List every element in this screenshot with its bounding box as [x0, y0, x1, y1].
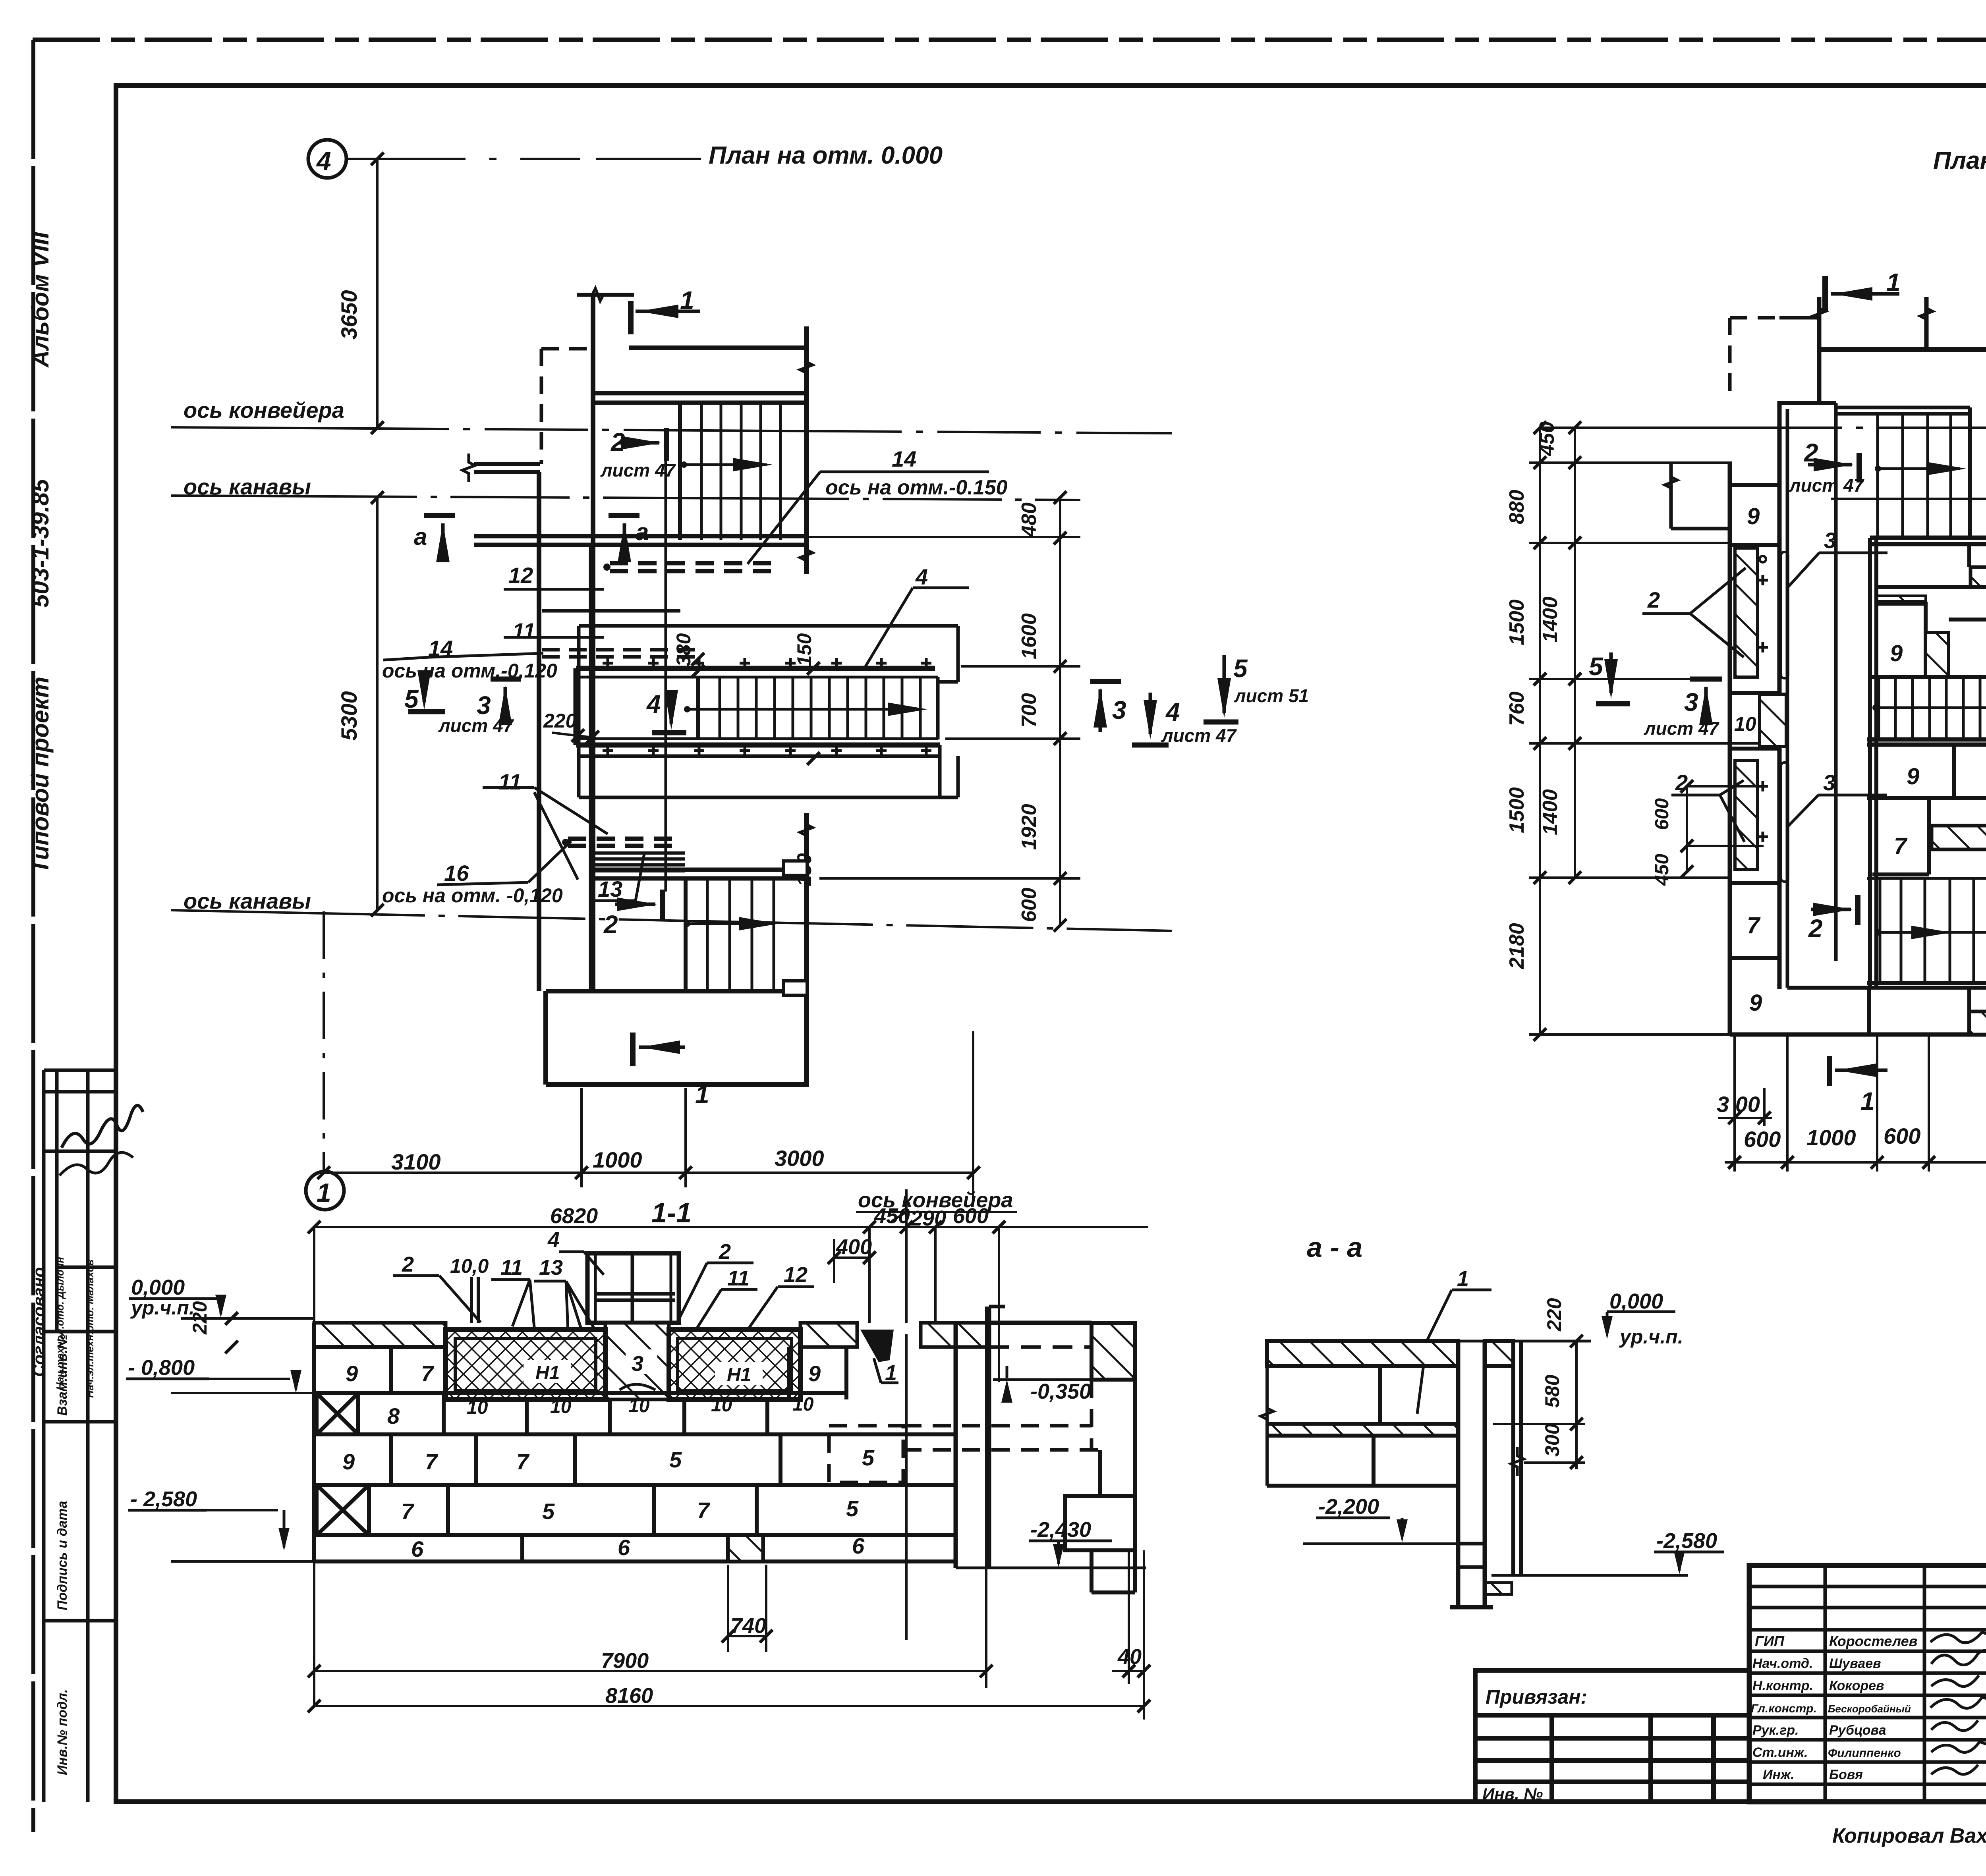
ось канавы upper line	[171, 496, 1080, 500]
small wall mark top-left	[1669, 463, 1673, 529]
section mark 2 bottom	[1811, 908, 1851, 911]
svg-text:ось конвейера: ось конвейера	[184, 398, 344, 423]
room divider lines	[542, 609, 680, 613]
svg-text:10: 10	[1734, 713, 1756, 735]
svg-text:760: 760	[1505, 691, 1528, 726]
bottom dim chain	[1725, 1161, 1986, 1164]
svg-text:3100: 3100	[391, 1149, 441, 1174]
-0,350 level right	[993, 1378, 1120, 1381]
lower stair	[1880, 878, 1974, 983]
dim 5300 vertical	[376, 498, 379, 910]
svg-text:лист 47: лист 47	[438, 715, 514, 736]
wall block rows	[314, 1323, 956, 1561]
svg-text:Коростелев: Коростелев	[1829, 1633, 1917, 1649]
svg-text:7: 7	[1747, 913, 1761, 938]
svg-text:Нач.отд.: Нач.отд.	[1752, 1656, 1813, 1671]
corridor walls	[1786, 409, 1789, 988]
inner small dim 600/450	[1686, 786, 1688, 872]
svg-text:2: 2	[719, 1240, 731, 1264]
svg-text:9: 9	[342, 1449, 355, 1474]
svg-text:1: 1	[885, 1361, 897, 1385]
tunnel bottom heavy line with anchors	[576, 743, 940, 748]
svg-text:14: 14	[892, 446, 916, 471]
signatures column squiggles	[1930, 1632, 1986, 1774]
dashed hidden top-left rectangle	[541, 347, 595, 351]
svg-text:а - а: а - а	[1307, 1232, 1362, 1263]
svg-text:5: 5	[846, 1496, 859, 1521]
13 stack lines	[590, 851, 685, 855]
svg-text:а: а	[414, 523, 427, 550]
svg-text:5: 5	[1589, 652, 1603, 681]
ось канавы lower line	[171, 910, 1172, 931]
svg-text:6: 6	[852, 1533, 865, 1558]
svg-text:4: 4	[547, 1228, 560, 1252]
svg-text:ГИП: ГИП	[1755, 1633, 1785, 1649]
svg-text:лист 51: лист 51	[1234, 685, 1309, 706]
left stamp table	[44, 1070, 116, 1802]
svg-text:700: 700	[1018, 693, 1041, 728]
svg-text:580: 580	[1541, 1374, 1563, 1408]
svg-text:5: 5	[862, 1445, 875, 1470]
left lower wall verticals	[537, 472, 541, 991]
row5 joints	[520, 1535, 524, 1561]
row1 joints	[389, 1347, 393, 1393]
top dim line 6820/450/290/600	[314, 1226, 1148, 1228]
trench box left (crosshatched)	[446, 1330, 605, 1399]
svg-text:7: 7	[401, 1499, 415, 1524]
section marks between plans: 3 up	[1090, 679, 1121, 684]
svg-text:3: 3	[632, 1352, 643, 1376]
svg-text:1000: 1000	[1806, 1125, 1856, 1150]
section marks between plans: 4 down	[1149, 693, 1152, 734]
right walls	[954, 1323, 958, 1568]
left outer dim chain	[1539, 428, 1541, 1035]
svg-text:ось на отм.-0,120: ось на отм.-0,120	[382, 660, 557, 682]
channel bars (3) thin outlines	[1781, 552, 1788, 678]
grid axis 1 vertical + bubble	[323, 911, 325, 1170]
row4 joints	[367, 1485, 371, 1535]
svg-text:Привязан:: Привязан:	[1486, 1686, 1587, 1708]
top wall end with break	[577, 293, 634, 297]
lower stair direction arrow	[684, 921, 690, 927]
svg-text:Типовой проект: Типовой проект	[27, 677, 54, 874]
svg-text:880: 880	[1505, 490, 1528, 524]
svg-text:лист 47: лист 47	[600, 460, 676, 481]
extension verticals top	[868, 1227, 871, 1324]
svg-text:Рук.гр.: Рук.гр.	[1752, 1723, 1799, 1738]
svg-text:1: 1	[1457, 1267, 1469, 1291]
svg-text:600: 600	[1884, 1123, 1920, 1148]
svg-text:-2,200: -2,200	[1318, 1495, 1379, 1519]
svg-text:7: 7	[425, 1449, 439, 1474]
svg-text:220: 220	[543, 710, 577, 732]
svg-text:7: 7	[516, 1449, 530, 1474]
svg-text:4: 4	[915, 564, 928, 589]
svg-text:2: 2	[603, 910, 618, 939]
svg-text:1920: 1920	[1018, 804, 1041, 850]
svg-text:9: 9	[808, 1361, 821, 1386]
svg-text:380: 380	[672, 633, 695, 666]
upper stair flight treads	[680, 403, 780, 540]
svg-text:-2,430: -2,430	[1030, 1518, 1091, 1542]
top stair	[1836, 406, 1970, 409]
svg-text:Взам.инв.№: Взам.инв.№	[55, 1334, 70, 1416]
band1 canal slot (left, enters plan)	[474, 462, 540, 466]
svg-text:600: 600	[1744, 1127, 1781, 1152]
svg-text:3: 3	[1823, 770, 1835, 795]
svg-text:Н.контр.: Н.контр.	[1752, 1678, 1813, 1693]
lower slot double line	[593, 868, 806, 872]
svg-text:1400: 1400	[1539, 596, 1562, 643]
small hatch at bottom of unit	[1486, 1583, 1512, 1594]
section 1 top mark	[628, 301, 634, 334]
grid axis 4 line	[346, 158, 701, 160]
stair direction arrow (upper flight)	[681, 461, 687, 468]
door tabs on right wall	[783, 861, 807, 875]
svg-text:450: 450	[1536, 421, 1559, 456]
svg-text:-2,580: -2,580	[1656, 1529, 1717, 1553]
top slab hatch	[1267, 1341, 1458, 1366]
svg-text:- 0,800: - 0,800	[128, 1356, 195, 1380]
svg-text:0,000: 0,000	[1609, 1289, 1663, 1313]
row3 joints	[389, 1434, 393, 1485]
left column wall verticals	[1728, 463, 1732, 1035]
svg-text:ур.ч.п.: ур.ч.п.	[1619, 1326, 1683, 1348]
9 7 7 row	[1867, 796, 1986, 800]
svg-text:1: 1	[695, 1080, 709, 1109]
row outlines	[314, 1345, 446, 1349]
svg-text:- 2,580: - 2,580	[130, 1487, 197, 1511]
svg-text:Рубцова: Рубцова	[1829, 1723, 1886, 1738]
svg-text:9: 9	[1749, 990, 1762, 1016]
signature squiggles	[62, 1106, 143, 1148]
svg-text:а: а	[636, 519, 649, 545]
ось конвейера line	[171, 427, 1172, 433]
svg-text:План на отм. 0.000: План на отм. 0.000	[709, 142, 943, 169]
9 block	[1876, 604, 1926, 677]
svg-text:11: 11	[500, 1256, 523, 1280]
svg-text:2: 2	[1647, 587, 1660, 612]
svg-text:2: 2	[1808, 914, 1823, 943]
svg-text:5: 5	[1233, 654, 1248, 683]
svg-text:2: 2	[402, 1253, 414, 1276]
svg-text:8: 8	[387, 1403, 400, 1428]
svg-text:ось канавы: ось канавы	[184, 888, 311, 913]
svg-text:1-1: 1-1	[651, 1197, 692, 1228]
extension verticals bottom	[1733, 1036, 1736, 1172]
svg-text:3000: 3000	[775, 1146, 824, 1171]
right side: notch + black wedge channel	[857, 1323, 921, 1334]
X blocks	[317, 1393, 369, 1535]
svg-text:6: 6	[618, 1535, 630, 1560]
svg-text:13: 13	[539, 1256, 563, 1280]
tunnel top heavy line with anchors	[576, 666, 935, 671]
mid stair treads	[1879, 677, 1986, 739]
svg-text:10: 10	[792, 1394, 814, 1415]
privyazan box	[1475, 1670, 1749, 1802]
mid right room step	[956, 626, 960, 682]
far right hatched wall	[1092, 1323, 1135, 1380]
middle stair direction arrow	[684, 706, 690, 712]
middle stair treads	[698, 677, 920, 739]
tunnel ledge top line	[579, 624, 958, 628]
svg-text:10: 10	[550, 1396, 572, 1417]
svg-text:3: 3	[1684, 688, 1698, 716]
ось конвейера line	[1540, 427, 1986, 429]
svg-text:600: 600	[1652, 798, 1673, 830]
section 1 bottom mark	[630, 1033, 636, 1066]
svg-text:ось на отм.-0.150: ось на отм.-0.150	[825, 476, 1008, 499]
svg-text:10: 10	[628, 1395, 650, 1417]
svg-text:1: 1	[680, 286, 694, 315]
svg-text:Н1: Н1	[727, 1365, 751, 1386]
svg-text:13: 13	[598, 876, 622, 901]
footing hatch piece	[728, 1535, 763, 1561]
svg-text:1: 1	[1860, 1087, 1875, 1116]
svg-text:7: 7	[697, 1498, 711, 1523]
svg-text:5: 5	[404, 685, 419, 713]
svg-text:12: 12	[508, 563, 533, 588]
section 1 bottom mark	[1827, 1056, 1832, 1086]
5 block	[1949, 618, 1986, 621]
svg-text:План на отм.-0,400: План на отм.-0,400	[1933, 147, 1986, 174]
extension lines left	[1529, 461, 1732, 464]
svg-text:450: 450	[1652, 854, 1673, 886]
right thin wall	[1511, 1341, 1515, 1575]
svg-text:220: 220	[1543, 1298, 1565, 1332]
thin hatched band	[1267, 1424, 1458, 1436]
svg-text:10,0: 10,0	[450, 1255, 489, 1277]
top slab hatched band	[314, 1323, 446, 1347]
svg-text:600: 600	[1018, 888, 1041, 922]
heavy line below mid stair	[1867, 737, 1986, 742]
section 1 top mark	[1822, 276, 1828, 311]
svg-text:8160: 8160	[605, 1684, 653, 1708]
svg-text:Копировал Вах.-: Копировал Вах.-	[1832, 1824, 1986, 1847]
row2 joints	[356, 1393, 360, 1434]
svg-text:Альбом VIII: Альбом VIII	[27, 232, 54, 368]
svg-text:503-1-39.85: 503-1-39.85	[27, 479, 54, 608]
svg-text:3 00: 3 00	[1717, 1092, 1760, 1117]
svg-text:Бескоробайный: Бескоробайный	[1828, 1703, 1911, 1715]
section a marks	[424, 513, 455, 518]
svg-text:16: 16	[444, 861, 469, 886]
svg-text:4: 4	[1165, 698, 1180, 726]
svg-text:1600: 1600	[1018, 613, 1041, 659]
tunnel inner box left	[577, 626, 581, 797]
hatched piers	[1735, 548, 1758, 677]
svg-text:7: 7	[421, 1361, 435, 1386]
svg-text:6820: 6820	[550, 1204, 598, 1228]
right dims 580/300	[1575, 1341, 1578, 1469]
svg-text:5300: 5300	[336, 691, 361, 741]
svg-text:ур.ч.п.: ур.ч.п.	[130, 1297, 195, 1319]
svg-text:1400: 1400	[1539, 789, 1562, 835]
svg-text:4: 4	[316, 146, 331, 176]
hatched band lower right	[1932, 826, 1986, 849]
svg-text:400: 400	[836, 1235, 872, 1259]
ground level line	[181, 1317, 314, 1320]
svg-text:9: 9	[1890, 641, 1903, 666]
svg-text:10: 10	[467, 1397, 488, 1418]
svg-text:7: 7	[1894, 833, 1908, 859]
svg-text:Инв. №: Инв. №	[1482, 1785, 1543, 1803]
7 block below	[1927, 798, 1931, 874]
svg-text:-0,350: -0,350	[1030, 1380, 1091, 1403]
svg-text:лист 47: лист 47	[1161, 725, 1237, 746]
svg-text:10: 10	[711, 1395, 732, 1416]
upper shaft right wall	[804, 326, 809, 574]
left wall blocks	[1267, 1364, 1458, 1368]
lower-left block	[543, 991, 548, 1085]
svg-text:480: 480	[1018, 502, 1041, 537]
svg-text:12: 12	[784, 1263, 808, 1287]
cell numbers	[342, 1361, 865, 1561]
svg-text:6: 6	[411, 1536, 424, 1561]
svg-text:9: 9	[346, 1361, 358, 1386]
outer border top (dashed)	[33, 38, 1986, 42]
dashed 5 box and dashed profile	[829, 1426, 903, 1482]
central precast unit	[1456, 1341, 1461, 1607]
svg-text:1: 1	[317, 1178, 331, 1207]
outer border left	[31, 40, 35, 1832]
svg-text:Бовя: Бовя	[1829, 1767, 1863, 1782]
svg-text:1: 1	[1886, 268, 1901, 297]
upper shaft top opening line	[629, 345, 806, 350]
top dashed hidden box	[1728, 318, 1732, 401]
svg-text:740: 740	[730, 1614, 766, 1638]
extension verticals	[580, 1088, 583, 1187]
svg-text:Кокорев: Кокорев	[1829, 1678, 1884, 1693]
band2 canal slot a-a level	[474, 534, 806, 538]
3 label on slab between trenches	[626, 1349, 657, 1374]
svg-text:11: 11	[498, 769, 522, 794]
svg-text:лист 47: лист 47	[1789, 475, 1865, 496]
svg-text:5: 5	[542, 1499, 555, 1524]
section mark 2 (lower)	[615, 903, 655, 906]
hidden dashes lower (отм -0,120)	[568, 837, 681, 841]
svg-text:7900: 7900	[601, 1649, 649, 1673]
svg-text:Инв.№ подл.: Инв.№ подл.	[55, 1689, 70, 1775]
svg-text:Инж.: Инж.	[1763, 1767, 1794, 1782]
title block left column texts	[1751, 1633, 1917, 1782]
svg-text:3650: 3650	[336, 290, 361, 340]
svg-text:Гл.констр.: Гл.констр.	[1751, 1702, 1817, 1715]
svg-text:300: 300	[1541, 1423, 1563, 1457]
svg-text:1500: 1500	[1505, 599, 1528, 645]
lower right room step	[956, 756, 960, 797]
ось канавы lower line	[1878, 931, 1986, 934]
top wall of right block	[1819, 347, 1986, 352]
svg-text:1000: 1000	[593, 1147, 642, 1172]
svg-text:9: 9	[1747, 504, 1760, 529]
section 2 cut line vertical	[665, 446, 667, 892]
svg-text:220: 220	[189, 1301, 211, 1335]
svg-text:Подпись и дата: Подпись и дата	[55, 1501, 70, 1610]
svg-text:ось на отм. -0,120: ось на отм. -0,120	[382, 884, 563, 907]
svg-text:Филиппенко: Филиппенко	[1828, 1747, 1901, 1760]
upper block row A with hatch	[1967, 544, 1971, 567]
trench box right (crosshatched)	[669, 1330, 800, 1399]
main left wall vertical	[591, 295, 595, 992]
svg-text:11: 11	[727, 1266, 750, 1290]
dim 3650 vertical	[376, 159, 379, 428]
svg-text:Ст.инж.: Ст.инж.	[1752, 1745, 1808, 1760]
svg-text:9: 9	[1907, 764, 1919, 789]
right lower box	[1065, 1496, 1135, 1550]
300 mini dim	[1718, 1117, 1772, 1119]
svg-text:0,000: 0,000	[131, 1276, 185, 1299]
bottom dimension chain	[324, 1172, 974, 1174]
svg-text:Согласовано: Согласовано	[29, 1267, 48, 1377]
right dim chain of left plan	[1059, 498, 1061, 925]
svg-text:2180: 2180	[1505, 923, 1528, 969]
left column cell lines	[1730, 485, 1779, 958]
bottom double line	[1867, 981, 1986, 985]
extension lines for right chain	[808, 536, 1080, 538]
ось канавы upper line	[1831, 498, 1986, 500]
upper slot double line	[593, 391, 806, 396]
svg-text:4: 4	[646, 690, 661, 718]
lower stair treads	[686, 878, 774, 992]
svg-text:Нач.эл.техн.отд. Малахов: Нач.эл.техн.отд. Малахов	[84, 1259, 96, 1398]
svg-text:1500: 1500	[1505, 787, 1528, 833]
svg-text:ось конвейера: ось конвейера	[858, 1188, 1013, 1212]
left inner dim chain	[1574, 428, 1576, 878]
svg-text:150: 150	[793, 633, 815, 666]
tunnel lower ledge	[579, 755, 940, 758]
svg-text:5: 5	[669, 1447, 682, 1472]
svg-text:Шуваев: Шуваев	[1829, 1656, 1881, 1671]
ground line	[1267, 1340, 1591, 1343]
400 dim	[834, 1256, 869, 1259]
grid bubble 4	[308, 140, 346, 178]
svg-text:11: 11	[512, 618, 535, 643]
hidden slot dashes (upper, отм -0.150)	[610, 561, 775, 566]
vent shaft	[587, 1253, 679, 1323]
svg-text:Н1: Н1	[535, 1363, 560, 1384]
svg-text:лист 47: лист 47	[1644, 718, 1720, 739]
small hatch piece	[1926, 633, 1949, 677]
bottom cells	[1730, 1033, 1986, 1037]
svg-text:3: 3	[1112, 696, 1126, 724]
